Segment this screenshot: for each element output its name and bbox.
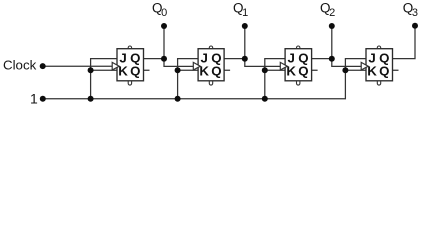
svg-text:Clock: Clock: [3, 58, 37, 73]
svg-text:K: K: [286, 64, 296, 79]
svg-text:K: K: [118, 64, 128, 79]
svg-text:Q: Q: [211, 64, 221, 79]
svg-text:Q: Q: [130, 64, 140, 79]
svg-text:K: K: [199, 64, 209, 79]
svg-text:1: 1: [30, 90, 38, 106]
svg-text:Q: Q: [298, 64, 308, 79]
svg-text:Q: Q: [379, 64, 389, 79]
svg-text:K: K: [367, 64, 377, 79]
